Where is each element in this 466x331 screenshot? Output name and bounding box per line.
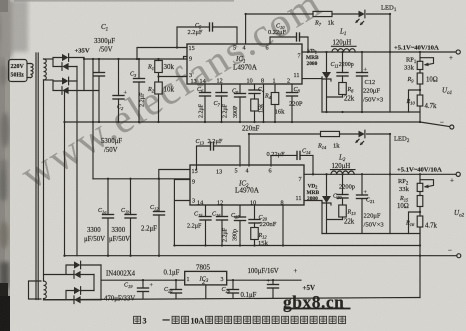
diode VD bridge1-4 bbox=[62, 87, 69, 95]
capacitor C21 220uF/50Vx3 bbox=[357, 174, 385, 233]
wire IC2 pin4 to top feed bbox=[249, 134, 321, 166]
caption: 图3 (figure 3) bbox=[134, 316, 141, 323]
wire channel2 supply rail bbox=[93, 178, 190, 180]
resistor R7 1k bbox=[313, 11, 359, 26]
capacitor C19b 470uF/33V bbox=[104, 280, 154, 302]
voltage regulator IC3 7805 bbox=[185, 264, 227, 299]
resistor R2 10k bbox=[147, 82, 175, 122]
diode VD bridge1-3 bbox=[62, 77, 69, 85]
wire bridge1 positive vertical bbox=[83, 58, 85, 91]
capacitor C2b 0.1uF bbox=[222, 280, 257, 299]
wire secondary bottom terminal to bridge bbox=[44, 79, 54, 81]
LED2 bbox=[356, 130, 410, 233]
wire ground bus left vertical bbox=[64, 91, 66, 256]
wire bridge1 input stub top pair bbox=[53, 58, 62, 67]
wire from source to primary bbox=[27, 64, 31, 78]
capacitor C6 2.2uF bbox=[197, 84, 211, 122]
capacitor C3 (2.2uF) bbox=[130, 59, 146, 122]
op-amp/regulator IC2 L4970A bbox=[190, 165, 304, 207]
wire long vertical from secondary down left side bbox=[43, 80, 45, 281]
wire ch1 sub ground rail bbox=[322, 111, 420, 113]
wire bridge2 input stub top pair bbox=[44, 265, 75, 275]
resistor R14 1k bbox=[317, 131, 359, 149]
inductor L1 120uH bbox=[332, 28, 357, 53]
wire secondary top terminal to bridge bbox=[44, 58, 54, 60]
wire ch2 sub ground rail bbox=[322, 233, 420, 235]
terminal ch2 positive bbox=[456, 172, 460, 176]
capacitor C11 2200p with resistor R8 22k bbox=[331, 52, 355, 103]
resistor R16 4.7k bbox=[405, 216, 437, 246]
capacitor C22 100uF/16V bbox=[248, 268, 298, 298]
caption text: dual channel 10A adjustable switching supply bbox=[163, 316, 346, 325]
wire ch1 output rail bbox=[302, 51, 456, 53]
transformer T1 primary winding bbox=[31, 64, 34, 78]
resistor R10 4.7k bbox=[406, 90, 437, 122]
transformer T2 winding (bottom, aux supply) bbox=[44, 281, 47, 299]
scan artifact: faint top edge smudge bbox=[14, 0, 234, 2]
wire ground rail channel 2 (terminal rail) bbox=[65, 255, 457, 257]
capacitor C8 220P bbox=[287, 84, 303, 122]
wire ch2 output rail bbox=[304, 173, 456, 175]
resistor R4 16k bbox=[264, 84, 285, 122]
terminal ch1 negative bbox=[450, 125, 454, 129]
scan artifact: wide gray top-left corner bbox=[0, 0, 28, 58]
diode VD bridge1-1 bbox=[62, 54, 69, 62]
capacitor C20 220nF with resistor R12 15k bbox=[249, 206, 277, 247]
wire IC1 pin3 feedback from R1/R2 divider bbox=[159, 76, 188, 78]
diode bridge2-4 (1N4002) bbox=[74, 296, 81, 304]
wire bridge1 outputs bbox=[69, 58, 99, 91]
wire IC1 pin8 to ground bbox=[263, 84, 265, 122]
wire bracket left of T2 winding bbox=[29, 281, 42, 299]
wire IC2 pin11 to snubber ground sub-rail bbox=[304, 201, 322, 234]
capacitor C16 2.2uF bbox=[212, 206, 229, 246]
wire channel2 supply feed vertical bbox=[92, 59, 94, 179]
wire bottom aux ground line bbox=[44, 298, 421, 300]
terminal ch1 positive bbox=[456, 50, 460, 54]
capacitor C19 2200p with resistor R13 22k bbox=[333, 174, 356, 225]
potentiometer RP1 33k bbox=[404, 52, 434, 72]
AC input source box 220V 50Hz bbox=[9, 60, 28, 82]
capacitor C4 220nF with resistor R5 15k bbox=[249, 84, 265, 122]
capacitor C14 0.22uF bbox=[267, 149, 314, 175]
resistor R1 30k bbox=[147, 59, 175, 82]
capacitor C5 2.2uF bootstrap bbox=[177, 23, 237, 48]
scan artifact: black bottom-left corner block bbox=[0, 262, 9, 288]
diode VD1 (schottky) bbox=[322, 52, 343, 112]
wire IC1 pin9 supply bbox=[184, 57, 188, 60]
scan artifact: left edge gray strip bbox=[0, 0, 10, 331]
resistor R15 10ohm bbox=[397, 192, 423, 234]
capacitor C2 (5300uF/50V electrolytic) bbox=[101, 59, 128, 154]
wire channel2 ground collector rail bbox=[174, 245, 420, 247]
diode bridge2-1 (1N4002) bbox=[74, 261, 81, 269]
wire 7805 output bbox=[227, 279, 301, 281]
diode bridge2-3 (1N4002) bbox=[74, 287, 81, 295]
wire bridge2 outputs bbox=[81, 265, 101, 300]
capacitor C7 2.2uF bbox=[214, 84, 229, 122]
wire bridge2 verticals bbox=[94, 265, 101, 300]
wire IC2 pin3/pin9 to ground collector bbox=[174, 180, 190, 246]
capacitor C9 390P bbox=[232, 84, 246, 122]
inductor L2 120uH bbox=[331, 154, 356, 175]
op-amp/regulator IC1 L4970A bbox=[187, 44, 302, 85]
diode bridge2-2 (1N4002) bbox=[74, 271, 81, 279]
diode VD1 MRB2080 label bbox=[306, 49, 319, 68]
wire aux positive rail to 7805 bbox=[101, 279, 185, 281]
capacitor C1a 3300uF/50V bbox=[84, 179, 114, 256]
terminal ch2 negative bbox=[457, 254, 461, 258]
capacitor C17 390p bbox=[231, 206, 246, 246]
wire IC2 pin8 to ground collector bbox=[282, 206, 284, 246]
capacitor C13 2.2uF bootstrap bbox=[196, 138, 241, 170]
transformer T1 secondary winding (top) bbox=[44, 59, 47, 80]
capacitor C1 (3300uF/50V) bbox=[94, 23, 116, 122]
capacitor C1b 3300uF/50V bbox=[109, 179, 136, 256]
wire junction dots bbox=[63, 13, 421, 282]
wire bridge1 input stub bottom pair bbox=[53, 81, 62, 91]
wire IC3 ground pin bbox=[205, 285, 207, 298]
wire IC1 pin15 supply bbox=[137, 48, 187, 60]
capacitor C10 0.22uF bbox=[268, 24, 308, 53]
diode VD bridge1-2 bbox=[62, 63, 69, 71]
diode VD2 MRB2080 label bbox=[307, 184, 320, 203]
capacitor C2a 0.1uF bbox=[164, 270, 182, 299]
capacitor C12b 2.2uF bbox=[141, 179, 165, 256]
wire right common vertical (ch2 to aux ground) bbox=[419, 228, 421, 298]
resistor R9 10ohm bbox=[407, 70, 438, 96]
wire IC2 pin15 supply bbox=[159, 170, 190, 179]
capacitor C15 2.2uF bbox=[187, 206, 211, 246]
transformer T1 core bbox=[36, 53, 38, 300]
wire IC1 pin11 to snubber ground sub-rail bbox=[302, 79, 322, 112]
potentiometer RP2 33k bbox=[398, 174, 434, 193]
wire bridge2 input stub bottom pair bbox=[44, 291, 75, 300]
wire IC1 pin4 to top feed bbox=[246, 14, 313, 44]
LED1 bbox=[356, 5, 397, 113]
wire ground rail channel 1 bbox=[65, 122, 450, 127]
diode VD2 (schottky) bbox=[322, 174, 343, 233]
wire +35V rail bbox=[84, 58, 187, 60]
watermark gbx8.cn bbox=[283, 292, 351, 312]
wire bridge1 negative vertical bbox=[76, 67, 78, 256]
capacitor C12 220uF/50Vx3 bbox=[357, 52, 384, 112]
